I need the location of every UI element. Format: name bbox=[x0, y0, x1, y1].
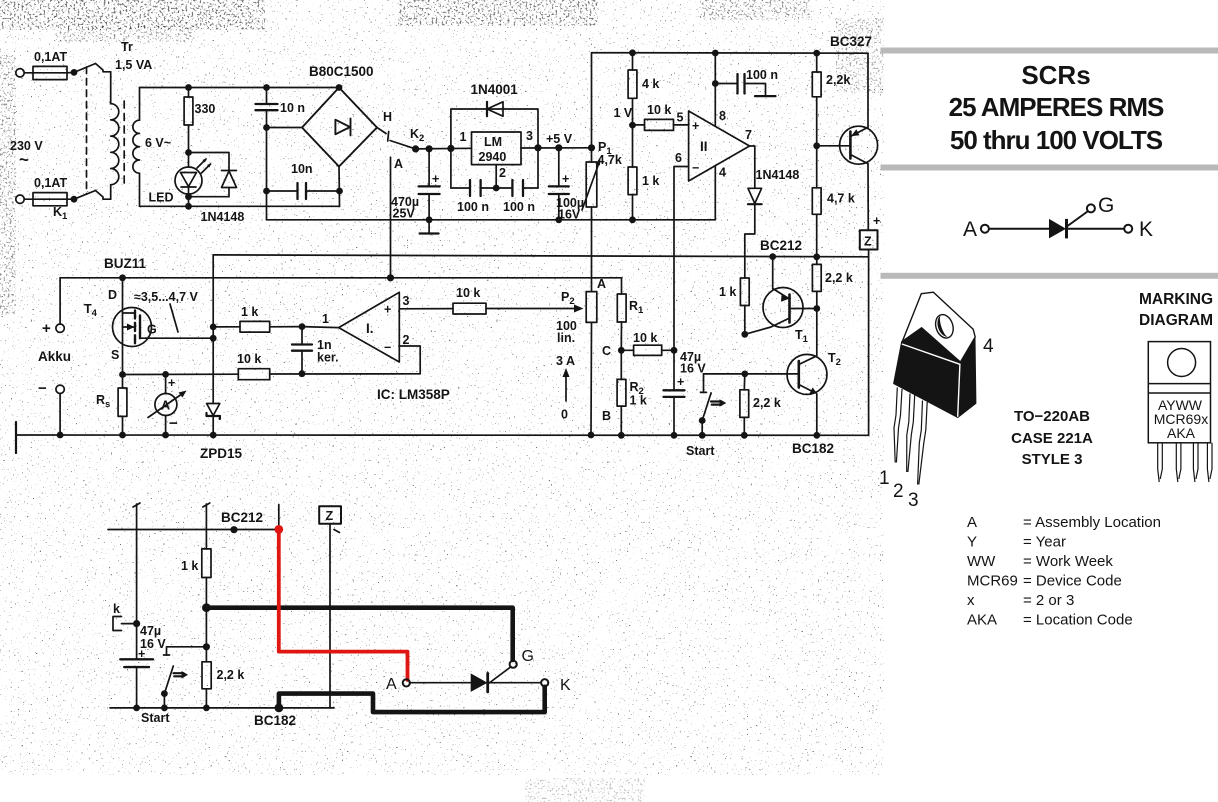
resistor R1 bbox=[617, 278, 626, 351]
svg-text:6: 6 bbox=[675, 151, 682, 165]
svg-text:10 k: 10 k bbox=[647, 103, 671, 117]
node gate 1k bbox=[210, 324, 217, 331]
svg-text:10 k: 10 k bbox=[237, 352, 261, 366]
svg-text:= 2 or 3: = 2 or 3 bbox=[1023, 592, 1074, 609]
detail resistor 1k bbox=[202, 549, 211, 608]
svg-text:STYLE 3: STYLE 3 bbox=[1022, 451, 1083, 468]
svg-text:H: H bbox=[383, 110, 392, 124]
wire secondary left leg bbox=[139, 88, 141, 207]
node minus link bbox=[263, 124, 270, 131]
node 1n top bbox=[299, 323, 306, 330]
detail node 47u top bbox=[133, 620, 140, 627]
fuse F1 0,1AT bbox=[33, 66, 74, 79]
svg-text:G: G bbox=[147, 323, 157, 337]
svg-text:1 k: 1 k bbox=[719, 285, 736, 299]
detail switch Start bbox=[164, 647, 207, 708]
legend row WW bbox=[967, 553, 1113, 570]
svg-text:0,1AT: 0,1AT bbox=[34, 176, 67, 190]
svg-text:+: + bbox=[432, 172, 439, 186]
svg-text:MARKING: MARKING bbox=[1139, 291, 1213, 308]
node 1V bbox=[629, 122, 636, 129]
node 100n tap bbox=[712, 80, 719, 87]
svg-text:16 V: 16 V bbox=[680, 362, 706, 376]
op-amp I bbox=[322, 292, 410, 362]
svg-text:BUZ11: BUZ11 bbox=[104, 256, 147, 271]
resistor 2,2k T2 bbox=[740, 374, 749, 435]
svg-text:ker.: ker. bbox=[317, 351, 339, 365]
svg-text:2: 2 bbox=[499, 166, 506, 180]
SCR detail bbox=[410, 667, 542, 692]
bridge rectifier B80C1500 bbox=[302, 88, 377, 167]
node 4,7k rail bbox=[813, 253, 820, 260]
wire pin2 feedback bbox=[399, 346, 420, 374]
svg-text:= Device Code: = Device Code bbox=[1023, 573, 1122, 590]
capacitor 470u bbox=[419, 149, 440, 220]
svg-text:≈3,5...4,7 V: ≈3,5...4,7 V bbox=[134, 290, 199, 304]
svg-text:K: K bbox=[560, 677, 571, 694]
node BC327 base bbox=[813, 142, 820, 149]
wire gate column bbox=[212, 255, 214, 404]
wire top rail bbox=[592, 53, 869, 148]
svg-text:1: 1 bbox=[460, 130, 467, 144]
op-amp II bbox=[675, 109, 752, 181]
svg-text:2,2k: 2,2k bbox=[826, 73, 850, 87]
separator bar 2 bbox=[881, 165, 1218, 171]
node top rail bc327 bbox=[813, 50, 820, 57]
node 1n bottom bbox=[299, 370, 306, 377]
detail node cathode rail bbox=[275, 704, 284, 713]
svg-text:B80C1500: B80C1500 bbox=[309, 64, 374, 79]
svg-text:1 k: 1 k bbox=[630, 394, 647, 408]
svg-text:2,2 k: 2,2 k bbox=[825, 271, 853, 285]
legend row x bbox=[967, 592, 1074, 609]
svg-text:Z: Z bbox=[864, 235, 872, 249]
node 470u top bbox=[426, 145, 433, 152]
svg-text:1 k: 1 k bbox=[642, 174, 659, 188]
wire rail C bbox=[213, 255, 868, 257]
svg-text:x: x bbox=[967, 592, 975, 609]
label 100u 16V bbox=[556, 196, 584, 222]
resistor 1k T1 bbox=[740, 278, 749, 334]
capacitor 10n lower bbox=[267, 183, 340, 199]
resistor 1k divider bbox=[628, 125, 637, 220]
detail stub left 47u column bbox=[133, 503, 140, 624]
diode 1N4001 bbox=[451, 102, 538, 149]
switch K1 pole a bbox=[74, 64, 96, 73]
switch Start main bbox=[701, 374, 745, 435]
label Tr 1,5 VA bbox=[115, 40, 152, 72]
node LED top bbox=[185, 149, 192, 156]
resistor Rs bbox=[118, 375, 127, 436]
svg-text:BC182: BC182 bbox=[254, 713, 296, 728]
svg-text:10 n: 10 n bbox=[280, 101, 305, 115]
detail stub above red bbox=[278, 505, 280, 526]
separator bar 1 bbox=[881, 48, 1218, 54]
svg-text:25V: 25V bbox=[393, 207, 416, 221]
svg-text:CASE 221A: CASE 221A bbox=[1011, 430, 1093, 447]
svg-text:1 k: 1 k bbox=[241, 305, 258, 319]
svg-text:−: − bbox=[38, 380, 47, 397]
svg-text:6 V~: 6 V~ bbox=[145, 136, 171, 150]
svg-text:BC212: BC212 bbox=[760, 238, 802, 253]
wire ground rail bbox=[267, 219, 716, 221]
transformer secondary bbox=[133, 120, 140, 173]
wire pin3 out bbox=[399, 308, 453, 310]
node LM pin3 bbox=[534, 144, 541, 151]
svg-text:TO−220AB: TO−220AB bbox=[1014, 408, 1090, 425]
svg-text:IC: LM358P: IC: LM358P bbox=[377, 387, 450, 402]
svg-text:K: K bbox=[1139, 218, 1153, 241]
regulator LM2940 bbox=[472, 132, 522, 165]
terminal G bbox=[510, 661, 517, 668]
svg-text:Z: Z bbox=[326, 509, 334, 523]
node C bbox=[618, 347, 625, 354]
svg-text:LED: LED bbox=[149, 191, 174, 205]
svg-text:0,1AT: 0,1AT bbox=[34, 50, 67, 64]
svg-text:+: + bbox=[384, 303, 391, 317]
TO-220 package body bbox=[894, 328, 976, 418]
svg-text:A: A bbox=[967, 514, 977, 531]
svg-text:= Year: = Year bbox=[1023, 534, 1066, 551]
terminal Akku minus bbox=[56, 385, 64, 435]
svg-text:7: 7 bbox=[745, 128, 752, 142]
node A wire end bbox=[387, 274, 394, 281]
detail wire top line bbox=[108, 529, 279, 531]
svg-text:2: 2 bbox=[893, 481, 904, 502]
svg-text:1,5 VA: 1,5 VA bbox=[115, 58, 152, 72]
capacitor 1n bbox=[292, 327, 312, 374]
svg-text:A: A bbox=[597, 277, 606, 291]
label 1n ker bbox=[317, 338, 339, 365]
svg-text:G: G bbox=[1098, 194, 1114, 217]
detail connector Z bbox=[319, 506, 341, 708]
node 10n top bbox=[263, 84, 270, 91]
svg-text:1N4148: 1N4148 bbox=[756, 168, 800, 182]
svg-text:= Work Week: = Work Week bbox=[1023, 553, 1113, 570]
fuse F2 0,1AT bbox=[33, 193, 74, 206]
terminal mains L bbox=[16, 69, 33, 77]
transistor T2 BC182 bbox=[745, 309, 827, 436]
detail resistor 2,2k bbox=[202, 662, 211, 708]
node K2 out bbox=[412, 145, 419, 152]
resistor 2,2k upper right bbox=[812, 257, 821, 309]
wire 6V rail bbox=[140, 87, 340, 89]
svg-text:4: 4 bbox=[719, 166, 726, 180]
wire rail Akku plus bbox=[60, 277, 621, 279]
thick wire to gate G bbox=[206, 608, 512, 660]
svg-text:2,2 k: 2,2 k bbox=[753, 396, 781, 410]
transformer Tr primary bbox=[96, 64, 119, 200]
label 47u bbox=[677, 350, 706, 389]
svg-text:1N4001: 1N4001 bbox=[471, 82, 519, 97]
resistor 2,2k top bbox=[812, 53, 821, 146]
svg-text:SCRs: SCRs bbox=[1021, 60, 1090, 90]
node pin8 top bbox=[712, 50, 719, 57]
svg-text:Y: Y bbox=[967, 534, 977, 551]
svg-text:~: ~ bbox=[19, 150, 29, 169]
svg-text:k: k bbox=[113, 602, 120, 616]
node gnd bbox=[426, 216, 433, 223]
svg-text:Start: Start bbox=[141, 711, 170, 725]
pot P2 bbox=[586, 292, 597, 435]
svg-text:4,7 k: 4,7 k bbox=[827, 192, 855, 206]
svg-text:2: 2 bbox=[403, 333, 410, 347]
wire A tap bbox=[390, 157, 392, 278]
SCR symbol panel bbox=[981, 204, 1132, 238]
node 100u top bbox=[555, 144, 562, 151]
TO-220 package tab bbox=[902, 292, 975, 362]
svg-text:Akku: Akku bbox=[38, 349, 71, 364]
node 100u gnd bbox=[555, 216, 562, 223]
svg-text:4 k: 4 k bbox=[642, 77, 659, 91]
svg-text:+: + bbox=[677, 375, 684, 389]
capacitor 10n upper bbox=[256, 88, 278, 128]
svg-text:1: 1 bbox=[879, 468, 890, 489]
terminal K bbox=[541, 679, 548, 686]
transistor T1 BC212 bbox=[745, 257, 817, 335]
node T1 base 22k bbox=[813, 305, 820, 312]
detail node BC212 bbox=[230, 526, 237, 533]
MOSFET T4 BUZ11 bbox=[113, 278, 214, 375]
red node bbox=[274, 525, 283, 534]
detail node start bbox=[203, 643, 210, 650]
wire pin6 feedback bbox=[674, 167, 689, 351]
svg-text:2,2 k: 2,2 k bbox=[217, 668, 245, 682]
resistor 10k S bbox=[238, 369, 420, 380]
legend row Y bbox=[967, 534, 1066, 551]
svg-text:+: + bbox=[692, 119, 699, 133]
svg-text:AKA: AKA bbox=[1167, 425, 1196, 441]
svg-text:+: + bbox=[138, 647, 145, 661]
svg-text:MCR69: MCR69 bbox=[967, 573, 1018, 590]
node 4k top bbox=[629, 49, 636, 56]
annotation 3A scale bbox=[556, 354, 575, 422]
svg-text:WW: WW bbox=[967, 553, 996, 570]
terminal Akku plus bbox=[56, 278, 64, 333]
node cap2 right bbox=[336, 188, 343, 195]
node gate G bbox=[210, 335, 217, 342]
svg-text:8: 8 bbox=[719, 109, 726, 123]
node 1k gnd bbox=[629, 216, 636, 223]
svg-text:= Assembly Location: = Assembly Location bbox=[1023, 514, 1161, 531]
svg-text:BC212: BC212 bbox=[221, 510, 263, 525]
svg-text:BC182: BC182 bbox=[792, 441, 834, 456]
node meter top bbox=[162, 371, 169, 378]
capacitor 47u bbox=[664, 350, 685, 435]
svg-text:1N4148: 1N4148 bbox=[201, 210, 245, 224]
ground symbol bbox=[420, 220, 439, 234]
resistor 10k to pin5 bbox=[633, 119, 689, 130]
capacitor 100n pair under regulator bbox=[451, 148, 538, 196]
detail node G takeoff bbox=[202, 603, 211, 612]
svg-text:−: − bbox=[384, 341, 391, 355]
TO-220 pins bbox=[894, 388, 927, 485]
svg-text:5: 5 bbox=[677, 111, 684, 125]
capacitor 100u bbox=[549, 148, 569, 220]
resistor 4,7k bbox=[812, 146, 821, 257]
svg-text:1 V: 1 V bbox=[614, 106, 633, 120]
switch K2 bbox=[377, 128, 416, 149]
wire +5V bbox=[521, 147, 592, 149]
svg-text:+: + bbox=[562, 172, 569, 186]
node T2 base bbox=[741, 371, 748, 378]
detail stub 1k column bbox=[203, 503, 210, 549]
ammeter bbox=[148, 374, 187, 435]
pot P1 bbox=[582, 148, 601, 292]
rail D dots bbox=[57, 432, 820, 439]
capacitor 100n decoupling bbox=[715, 74, 775, 96]
svg-text:4,7k: 4,7k bbox=[598, 153, 622, 167]
svg-text:Tr: Tr bbox=[121, 40, 133, 54]
svg-text:G: G bbox=[522, 648, 534, 665]
terminal mains N bbox=[16, 195, 33, 203]
wire minus drop bbox=[266, 128, 268, 220]
svg-text:3: 3 bbox=[526, 129, 533, 143]
wire bridge AC2 drop bbox=[338, 167, 341, 207]
svg-text:I.: I. bbox=[366, 321, 374, 336]
svg-text:D: D bbox=[108, 288, 117, 302]
svg-text:B: B bbox=[602, 409, 611, 423]
svg-text:−: − bbox=[169, 415, 178, 432]
wire rail D bbox=[16, 434, 869, 436]
svg-text:ZPD15: ZPD15 bbox=[200, 446, 243, 461]
svg-text:1: 1 bbox=[322, 312, 329, 326]
resistor R2 bbox=[617, 350, 626, 435]
node LED bottom bbox=[185, 193, 192, 200]
svg-text:50 thru 100 VOLTS: 50 thru 100 VOLTS bbox=[950, 125, 1163, 155]
legend row AKA bbox=[967, 612, 1133, 629]
node 47u top bbox=[671, 347, 678, 354]
svg-text:lin.: lin. bbox=[557, 331, 575, 345]
wire pin8 bbox=[714, 53, 716, 126]
separator bar 3 bbox=[881, 273, 1218, 279]
svg-text:Start: Start bbox=[686, 444, 715, 458]
label 470u 25V bbox=[391, 195, 419, 221]
svg-text:100 n: 100 n bbox=[746, 68, 778, 82]
svg-text:2940: 2940 bbox=[479, 150, 507, 164]
svg-text:0: 0 bbox=[561, 408, 568, 422]
node rail bbox=[185, 203, 192, 210]
node T1 emitter rail bbox=[769, 253, 776, 260]
wire to bridge left bbox=[267, 127, 303, 129]
detail connector k stub bbox=[113, 617, 137, 631]
zener ZPD15 bbox=[207, 404, 220, 436]
wire Z down bbox=[868, 250, 870, 436]
wire K2 to LM2940 bbox=[416, 147, 472, 150]
svg-text:47µ: 47µ bbox=[140, 624, 161, 638]
node LM pin1 bbox=[447, 145, 454, 152]
label R2 1k bbox=[630, 380, 647, 408]
red wire to anode bbox=[279, 529, 408, 680]
svg-text:+: + bbox=[873, 214, 880, 228]
svg-text:+: + bbox=[168, 376, 175, 390]
connector Z bbox=[860, 230, 878, 249]
svg-text:+: + bbox=[42, 320, 51, 337]
node start top bbox=[699, 417, 706, 424]
marking package outline bbox=[1148, 342, 1210, 443]
svg-text:100 n: 100 n bbox=[457, 200, 489, 214]
label gate voltage note bbox=[134, 290, 199, 332]
node bridge top bbox=[336, 84, 343, 91]
detail wire 1k to start node bbox=[205, 608, 207, 662]
svg-text:DIAGRAM: DIAGRAM bbox=[1139, 312, 1213, 329]
svg-text:II: II bbox=[700, 139, 708, 154]
resistor 10k C bbox=[621, 345, 674, 355]
detail capacitor 47u bbox=[120, 624, 153, 708]
resistor 1k input bbox=[213, 321, 302, 332]
detail wire bottom rail bbox=[110, 707, 334, 709]
wire LED to rail bbox=[188, 197, 190, 207]
wire opamp1 out bbox=[302, 327, 339, 328]
resistor 10k fb bbox=[453, 303, 584, 314]
svg-text:10 k: 10 k bbox=[456, 286, 480, 300]
node K1b bbox=[71, 196, 78, 203]
svg-text:LM: LM bbox=[484, 135, 502, 149]
svg-text:3: 3 bbox=[403, 294, 410, 308]
label 100 lin bbox=[556, 319, 577, 345]
svg-text:AKA: AKA bbox=[967, 612, 997, 629]
detail label 47u bbox=[138, 624, 166, 661]
resistor 330 bbox=[184, 84, 193, 152]
svg-text:A: A bbox=[963, 218, 977, 241]
svg-text:100 n: 100 n bbox=[503, 200, 535, 214]
label 230 V bbox=[10, 139, 43, 169]
node pin2 gnd bbox=[493, 185, 500, 192]
diode 1N4148 antiparallel bbox=[189, 153, 237, 197]
switch K1 linkage bbox=[86, 67, 88, 194]
wire pin4 bbox=[714, 166, 716, 220]
diode 1N4148 output bbox=[745, 146, 762, 278]
svg-text:S: S bbox=[111, 348, 119, 362]
detail rail dots bbox=[133, 705, 210, 712]
svg-text:−: − bbox=[692, 161, 699, 175]
svg-text:1 k: 1 k bbox=[181, 559, 198, 573]
LED D1 bbox=[175, 153, 211, 197]
node P1 top bbox=[588, 144, 595, 151]
svg-text:+5 V: +5 V bbox=[546, 132, 573, 146]
svg-text:= Location Code: = Location Code bbox=[1023, 612, 1133, 629]
node cap2 left bbox=[263, 188, 270, 195]
svg-text:10n: 10n bbox=[291, 162, 313, 176]
svg-text:A: A bbox=[394, 157, 403, 171]
svg-text:330: 330 bbox=[195, 102, 216, 116]
wire AC return rail bbox=[140, 205, 340, 207]
node D rail bbox=[119, 274, 126, 281]
resistor 4k bbox=[628, 53, 637, 125]
rail D end bar bbox=[15, 422, 17, 453]
svg-text:3 A: 3 A bbox=[556, 354, 575, 368]
transformer core bbox=[123, 101, 125, 187]
terminal A bbox=[403, 679, 410, 686]
svg-text:10 k: 10 k bbox=[633, 331, 657, 345]
svg-text:C: C bbox=[602, 344, 611, 358]
svg-text:BC327: BC327 bbox=[830, 34, 872, 49]
svg-text:A: A bbox=[386, 676, 397, 693]
svg-text:3: 3 bbox=[908, 490, 919, 511]
switch K1 pole b bbox=[74, 191, 96, 200]
node T1 collector bbox=[741, 331, 748, 338]
wire S line bbox=[123, 373, 239, 375]
svg-text:25 AMPERES RMS: 25 AMPERES RMS bbox=[949, 92, 1164, 122]
node S bbox=[119, 371, 126, 378]
transistor BC327 bbox=[817, 53, 878, 230]
legend row A bbox=[967, 514, 1161, 531]
thick wire cathode return bbox=[279, 687, 545, 712]
legend row MCR69 bbox=[967, 573, 1122, 590]
marking pins bbox=[1158, 443, 1212, 482]
node K1a bbox=[71, 69, 78, 76]
svg-text:4: 4 bbox=[983, 336, 994, 357]
